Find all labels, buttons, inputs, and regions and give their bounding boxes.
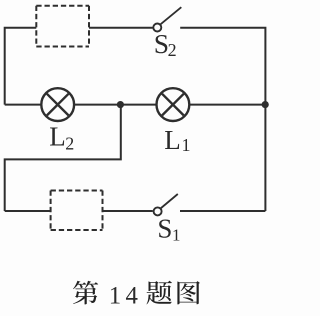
switch S2 lever <box>160 7 181 24</box>
wire lamp row left <box>5 104 42 106</box>
switch S2 pivot <box>153 24 161 32</box>
svg-text:S: S <box>157 213 172 243</box>
lamp L1 <box>157 88 190 121</box>
svg-text:1: 1 <box>109 282 121 309</box>
wire L1 to right vertical <box>189 104 265 106</box>
wire L2 to L1 <box>74 104 156 106</box>
svg-text:1: 1 <box>172 225 181 244</box>
wire box2 to S1 <box>103 210 153 212</box>
dashed component box bottom <box>51 191 103 231</box>
label S2 <box>49 28 190 310</box>
wire bottom-left to box2 <box>5 210 51 212</box>
switch S1 lever <box>161 194 178 209</box>
svg-text:2: 2 <box>65 134 74 154</box>
switch S1 pivot <box>154 207 162 215</box>
svg-text:L: L <box>49 122 66 152</box>
caption char di 第 <box>73 281 98 305</box>
lamp L2 <box>41 88 74 121</box>
junction node right <box>262 101 269 108</box>
wire S2 to top-right corner and right vertical <box>180 28 265 211</box>
wire top-left horizontal <box>5 28 37 105</box>
wire middle vertical down from junction <box>5 105 121 211</box>
caption char tu 图 <box>177 281 200 304</box>
junction node between L2 and L1 <box>117 101 124 108</box>
svg-text:4: 4 <box>126 282 139 309</box>
svg-text:1: 1 <box>182 135 191 155</box>
dashed component box top <box>36 6 89 47</box>
svg-text:2: 2 <box>168 40 177 60</box>
svg-text:L: L <box>164 125 181 155</box>
wire box1 to S2 <box>89 27 153 29</box>
wire S1 to bottom-right corner <box>180 210 265 212</box>
caption char ti 题 <box>146 281 171 305</box>
